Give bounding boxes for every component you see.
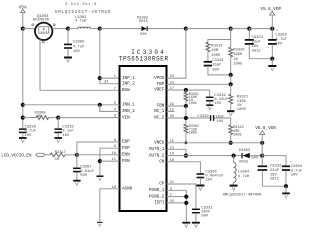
capacitor C3304 4.7uF xyxy=(282,156,303,187)
svg-text:VNEG: VNEG xyxy=(154,141,165,146)
wire INP_2 pin xyxy=(100,83,120,85)
wire C3320 to R3322 xyxy=(214,118,230,125)
svg-text:VIN: VIN xyxy=(122,115,130,120)
resistor R3309 100 xyxy=(35,111,49,119)
capacitor C3331 10nF xyxy=(192,207,213,223)
wire VREF pin xyxy=(167,89,210,91)
svg-text:BSW: BSW xyxy=(122,88,130,93)
svg-text:LCD_VCCIO_EN: LCD_VCCIO_EN xyxy=(1,155,32,159)
node junction enable xyxy=(75,153,79,157)
svg-text:50V: 50V xyxy=(251,156,259,160)
node junction VREF/R3301 xyxy=(184,88,188,92)
node junction INP_1 xyxy=(98,76,102,80)
wire OUTN_2 pin xyxy=(167,155,242,157)
wire enable to ENP pin xyxy=(77,142,120,155)
svg-text:R3320: R3320 xyxy=(233,49,245,53)
svg-text:24: 24 xyxy=(104,81,109,85)
node junction OUTN tie xyxy=(184,154,188,158)
wire AGND pin xyxy=(100,189,120,222)
node junction rail/VPOS drop xyxy=(184,27,188,31)
resistor R3321 130K xyxy=(229,84,249,112)
svg-text:22uF: 22uF xyxy=(252,41,262,45)
wire VGN caps bottom rail xyxy=(262,185,286,187)
ground C3307 xyxy=(73,181,80,186)
wire V5A stem xyxy=(22,13,24,29)
svg-text:FBN: FBN xyxy=(157,104,165,109)
svg-text:PGND_1: PGND_1 xyxy=(149,188,165,193)
svg-text:1005: 1005 xyxy=(237,108,247,112)
IC3304 pin names and numbers xyxy=(104,75,175,206)
inductor L3302 4.7uH xyxy=(75,16,91,28)
label L3302 part number xyxy=(55,11,111,15)
wire OUTN_1 pin xyxy=(167,149,186,155)
wire VGN vertical xyxy=(261,143,263,156)
wire VPOS pin to rail xyxy=(167,29,186,79)
svg-text:0015: 0015 xyxy=(139,20,149,24)
svg-text:7: 7 xyxy=(114,87,116,91)
svg-text:R3317: R3317 xyxy=(55,151,66,155)
label L3304 part number xyxy=(223,194,262,198)
capacitor C3333 22uF xyxy=(258,156,282,187)
capacitor C3303 4.7uF xyxy=(268,29,287,59)
svg-text:2012: 2012 xyxy=(270,178,280,182)
ground C3306 xyxy=(196,186,204,191)
wire VIN pin xyxy=(58,117,119,119)
node junction VIN wire xyxy=(21,116,25,120)
capacitor C3324 22uF xyxy=(245,29,264,59)
svg-text:10V: 10V xyxy=(73,50,81,54)
svg-text:C3324: C3324 xyxy=(212,59,224,63)
resistor R3318 10M xyxy=(206,42,223,58)
svg-text:HMLQ25201T-4R7MUR: HMLQ25201T-4R7MUR xyxy=(223,194,262,198)
power flag V5A xyxy=(19,5,27,12)
diode D3302 xyxy=(137,17,149,38)
wire NC_1 stub xyxy=(167,110,175,112)
svg-text:V5.8_VGN: V5.8_VGN xyxy=(255,126,276,131)
svg-text:1005: 1005 xyxy=(233,134,242,138)
svg-text:10V: 10V xyxy=(216,120,224,124)
capacitor C3328 4.7uF xyxy=(19,125,37,138)
ground C3328 xyxy=(19,138,27,143)
ground AGND xyxy=(97,222,103,226)
wire VNEG pin xyxy=(167,142,263,144)
node junction rail/C3324 xyxy=(247,27,251,31)
svg-text:25V: 25V xyxy=(205,179,213,183)
svg-text:2012: 2012 xyxy=(252,50,262,54)
wire OUTN row to C3304 xyxy=(262,155,286,157)
svg-text:INN_1: INN_1 xyxy=(122,103,135,108)
wire PGND_2 pin xyxy=(167,196,187,198)
wire C3305 to L3302 xyxy=(68,28,78,30)
wire rail C3324-to-VDP xyxy=(249,28,272,30)
svg-text:V5.8_VDP: V5.8_VDP xyxy=(260,7,281,12)
node junction VNEG/VGN column xyxy=(260,141,264,145)
svg-text:4.7uF: 4.7uF xyxy=(275,38,287,42)
wire FBP pin xyxy=(167,83,231,85)
svg-text:VPOS: VPOS xyxy=(154,76,165,81)
node junction INN_1/INN_2 tie xyxy=(98,103,102,107)
node junction VDP caps ground xyxy=(270,57,274,61)
node junction VGN caps ground xyxy=(284,184,288,188)
node LCD_VCCIO_EN input tag xyxy=(1,153,45,158)
svg-text:16V: 16V xyxy=(62,134,70,138)
resistor R3322 10K xyxy=(229,125,244,143)
wire FBN pin xyxy=(167,105,186,107)
wire NC_2 to C3320 xyxy=(167,117,210,119)
op-amp U1 IC3304 TPS65130RGER box xyxy=(119,49,169,211)
svg-text:15pF: 15pF xyxy=(212,64,222,68)
wire rail VPOS-to-network xyxy=(186,28,231,30)
svg-text:VREF: VREF xyxy=(154,88,165,93)
wire PGND_1 pin xyxy=(167,190,187,222)
svg-text:FBP: FBP xyxy=(157,82,165,87)
wire network top tee xyxy=(208,29,231,43)
wire INP vertical xyxy=(99,29,101,84)
svg-text:50V: 50V xyxy=(140,33,148,37)
wire rail to Q3303 xyxy=(23,28,36,30)
label L3302 dimensions xyxy=(65,3,97,7)
wire L3302 to INP node xyxy=(91,28,100,30)
ground L3304 xyxy=(230,186,238,191)
node junction OUTN/L3304 xyxy=(232,154,236,158)
node junction EP xyxy=(184,201,188,205)
svg-text:C3303: C3303 xyxy=(275,33,287,37)
svg-text:NC_2: NC_2 xyxy=(154,116,165,121)
capacitor C3307 0.01uF xyxy=(73,155,94,180)
transistor Q3303 AO3407B xyxy=(32,15,56,43)
node junction network bottom xyxy=(229,73,233,77)
resistor R3302 715K xyxy=(184,106,199,143)
svg-text:OUTN_1: OUTN_1 xyxy=(149,147,165,152)
ground C3305 xyxy=(64,58,72,63)
wire CP pin xyxy=(167,184,196,209)
wire Q3303 gate to BSW pin xyxy=(40,39,120,90)
wire to R3309 xyxy=(23,117,36,119)
svg-text:HMLQ25201T-4R7MUR: HMLQ25201T-4R7MUR xyxy=(55,11,111,15)
node junction PSN tie xyxy=(98,159,102,163)
svg-text:CP: CP xyxy=(159,182,165,187)
node junction PGND_2 xyxy=(184,195,188,199)
capacitor C3324 15pF xyxy=(204,59,225,73)
inductor L3304 4.7uH xyxy=(234,156,250,185)
wire left vertical V5A net xyxy=(22,29,24,129)
svg-text:AO3407B: AO3407B xyxy=(33,19,50,23)
svg-text:CN: CN xyxy=(159,160,165,165)
ground PGND xyxy=(182,223,190,228)
svg-text:D3303: D3303 xyxy=(239,149,251,153)
svg-text:1%: 1% xyxy=(233,58,238,62)
node junction rail/feedback network xyxy=(229,27,233,31)
svg-text:ENP: ENP xyxy=(122,140,130,145)
svg-text:1005: 1005 xyxy=(211,54,221,58)
svg-text:OUTN_2: OUTN_2 xyxy=(149,153,165,158)
capacitor C3319 0.22uF xyxy=(206,90,229,106)
svg-text:1005: 1005 xyxy=(189,102,197,106)
svg-text:NC_1: NC_1 xyxy=(154,109,165,114)
node junction rail/C3305 xyxy=(66,27,70,31)
svg-text:1005: 1005 xyxy=(233,62,243,66)
capacitor C3320 10uF xyxy=(197,115,225,124)
wire C3324 bottom to C3303 bottom xyxy=(249,58,272,60)
diode D3303 xyxy=(239,149,259,165)
wire R3318 to C3324fb xyxy=(207,52,209,61)
wire PSN pin xyxy=(100,160,120,162)
svg-text:4.7uF: 4.7uF xyxy=(73,45,85,49)
ground R3321 xyxy=(227,111,234,116)
svg-text:C3324: C3324 xyxy=(252,36,264,40)
svg-text:INP_1: INP_1 xyxy=(122,76,135,81)
node junction rail/INP drop xyxy=(98,27,102,31)
wire network to FBP row xyxy=(230,75,232,84)
wire CN pin xyxy=(167,162,201,174)
wire R3309 to C3318 node xyxy=(49,117,59,119)
wire D3302 to VPOS column xyxy=(148,28,186,30)
node junction C3318 xyxy=(56,116,60,120)
node junction R3302/VNEG xyxy=(185,141,188,144)
svg-text:50V: 50V xyxy=(201,215,209,219)
svg-text:C3305: C3305 xyxy=(73,41,85,45)
svg-text:10V: 10V xyxy=(275,42,283,46)
svg-text:R3318: R3318 xyxy=(211,44,223,48)
svg-text:0015: 0015 xyxy=(239,161,249,165)
wire PSP to tie xyxy=(100,148,120,175)
svg-text:50V: 50V xyxy=(80,174,88,178)
svg-text:PSN: PSN xyxy=(122,159,130,164)
wire enable to ENN pin xyxy=(77,154,120,156)
wire INN_1 long xyxy=(23,104,120,106)
wire D3303 to VGN column xyxy=(250,155,262,157)
svg-text:4.7uH: 4.7uH xyxy=(75,20,86,24)
svg-text:4.7uH: 4.7uH xyxy=(238,175,249,179)
svg-text:PGND_2: PGND_2 xyxy=(149,194,165,199)
wire INN_2 jog xyxy=(100,105,120,112)
svg-text:C3320: C3320 xyxy=(197,115,209,119)
resistor R3317 1K xyxy=(50,151,66,162)
wire R3317 to enable node xyxy=(65,154,77,156)
capacitor C3306 0.0047uF xyxy=(197,170,225,184)
wire C3324fb to network bottom xyxy=(208,66,231,75)
power flag V5.8_VGN xyxy=(255,126,276,135)
capacitor C3318 0.1uF xyxy=(54,118,74,138)
svg-text:50V: 50V xyxy=(212,68,220,72)
wire V5.8_VDP stem xyxy=(271,15,273,29)
svg-text:10uF: 10uF xyxy=(215,115,225,119)
wire rail network-to-C3324 xyxy=(231,28,250,30)
wire tag to R3317 xyxy=(45,154,50,156)
ground C3331 xyxy=(192,223,200,228)
power flag V5.8_VDP xyxy=(260,7,281,15)
resistor R3301 150K xyxy=(184,90,199,106)
svg-text:10V: 10V xyxy=(291,174,299,178)
svg-text:TPS65130RGER: TPS65130RGER xyxy=(119,55,169,62)
svg-text:ENN: ENN xyxy=(122,153,130,158)
svg-text:499K: 499K xyxy=(233,53,243,57)
ground C3319 xyxy=(206,105,213,109)
svg-text:INN_2: INN_2 xyxy=(122,109,135,114)
node junction rail/V5.8_VDP xyxy=(270,27,274,31)
wire EP pin xyxy=(167,202,187,204)
node junction V5A/rail xyxy=(21,27,25,31)
wire Q3303 drain to rail xyxy=(52,28,68,30)
wire rail to diode D3302 xyxy=(100,28,141,30)
svg-text:2.5x2.0x1.0: 2.5x2.0x1.0 xyxy=(65,3,97,7)
node junction VGN/OUTN xyxy=(260,154,264,158)
svg-text:1K: 1K xyxy=(55,158,60,162)
wire INP_1 pin xyxy=(100,77,120,79)
ground VDP caps xyxy=(268,59,276,71)
ground PSP/PSN xyxy=(96,176,103,180)
svg-text:V5A: V5A xyxy=(19,5,27,10)
ground C3318 xyxy=(54,138,62,143)
svg-text:100: 100 xyxy=(36,115,43,119)
resistor R3320 499K xyxy=(229,40,246,75)
node junction INN wire xyxy=(21,103,25,107)
svg-text:10M: 10M xyxy=(211,49,219,53)
node junction NC_2/R3302 chain xyxy=(184,116,188,120)
svg-text:AGND: AGND xyxy=(122,187,133,192)
capacitor C3305 4.7uF xyxy=(64,29,85,57)
svg-text:PSP: PSP xyxy=(122,146,130,151)
node junction FBN xyxy=(184,104,188,108)
node junction R3322/VNEG xyxy=(229,141,233,145)
svg-text:10V: 10V xyxy=(214,102,222,106)
svg-text:1005: 1005 xyxy=(189,131,197,135)
wire V5.8_VGN stem xyxy=(261,134,263,143)
svg-text:INP_2: INP_2 xyxy=(122,81,135,86)
node junction FBP xyxy=(229,82,233,86)
ground VGN caps xyxy=(282,186,290,198)
svg-text:16V: 16V xyxy=(252,45,260,49)
svg-text:[EP]: [EP] xyxy=(154,201,164,206)
